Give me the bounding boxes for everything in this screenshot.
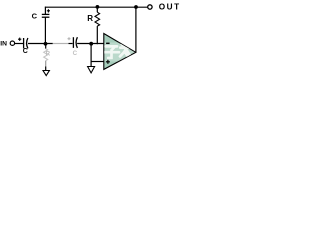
svg-text:IN: IN [0,41,7,48]
svg-text:C: C [23,48,28,55]
svg-text:C: C [32,12,38,21]
svg-text:OUT: OUT [159,3,181,12]
svg-text:R: R [87,14,93,23]
svg-text:C: C [73,50,78,57]
svg-text:R: R [46,50,51,57]
